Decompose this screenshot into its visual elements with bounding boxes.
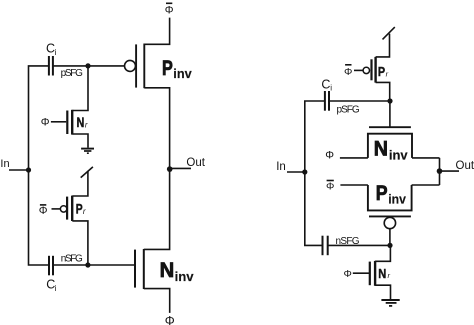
junction In node (left) [26, 167, 31, 172]
svg-text:nSFG: nSFG [61, 253, 83, 264]
svg-text:Φ: Φ [41, 117, 50, 129]
wire In lead (left) [9, 169, 29, 171]
wire Nr gate lead [51, 121, 66, 123]
tunneling arrow (right) [383, 27, 395, 39]
wire Pr gate lead (right) [354, 69, 363, 71]
transistor Nr NMOS (left) [67, 110, 72, 135]
svg-text:C: C [321, 78, 330, 92]
wire Pr drain to tunneling junction (right) [376, 34, 390, 57]
svg-text:In: In [0, 158, 9, 170]
svg-text:i: i [55, 284, 57, 293]
wire nSFG rail (left) [53, 264, 134, 266]
junction pSFG node (left) [85, 63, 90, 68]
wire Nr gate lead (right) [353, 272, 369, 274]
junction Out node (left) [167, 166, 173, 172]
junction Out node (right) [437, 168, 443, 174]
wire Nr source to ground (right) [375, 285, 390, 299]
wire Ninv source lead to phi (right) [340, 157, 368, 159]
wire Pr source to nSFG rail [72, 221, 88, 265]
wire pSFG node to Pr source (right) [376, 82, 390, 101]
wire Out stub (left) [170, 167, 191, 169]
label Ninv [160, 258, 194, 284]
wire Pr gate lead [52, 208, 61, 210]
label Nr [77, 115, 88, 130]
label phi-bar (Pr gate, left) [39, 205, 48, 217]
wire Out stub (right) [440, 170, 460, 172]
capacitor C1 Ci top plates (left) [49, 56, 53, 76]
svg-text:inv: inv [389, 148, 408, 162]
transistor Pinv PMOS (right) [368, 185, 412, 229]
svg-text:P: P [162, 56, 173, 80]
junction nSFG node (left) [85, 262, 90, 267]
label phi-bar (Pinv lead, right) [326, 180, 334, 192]
label phi-bar (Pr gate, right) [344, 65, 352, 78]
svg-text:r: r [386, 69, 389, 78]
transistor Ninv NMOS (left) [135, 249, 144, 289]
svg-text:Φ: Φ [165, 4, 174, 16]
svg-text:N: N [378, 266, 386, 281]
junction pSFG node (right) [387, 98, 392, 103]
svg-text:Out: Out [186, 157, 205, 169]
svg-text:Out: Out [456, 160, 474, 172]
label Ci (top right) [321, 78, 332, 93]
wire Ninv source to phi supply [144, 289, 170, 313]
transistor Pr PMOS (right) [363, 57, 376, 83]
svg-text:N: N [160, 258, 175, 282]
svg-text:Φ: Φ [344, 268, 352, 280]
wire pSFG node to Ninv gate (right) [389, 101, 391, 127]
wire tunneling junction to Pr drain [72, 171, 88, 196]
wire Ninv drain to Out (right) [412, 157, 440, 159]
svg-text:C: C [46, 42, 55, 56]
label Ci (bottom left) [46, 277, 56, 292]
label phi-bar (top supply, left) [165, 3, 174, 16]
wire Pinv drain to phi-bar supply [144, 18, 169, 45]
svg-text:Φ: Φ [165, 314, 175, 325]
wire pSFG rail (left) [53, 65, 125, 67]
wire Pinv source lead to phi-bar (right) [340, 184, 368, 186]
svg-text:P: P [376, 181, 388, 205]
junction In node (right) [302, 169, 307, 174]
svg-text:Φ: Φ [326, 180, 334, 192]
wire input rail feeding both coupling capacitors (left) [29, 66, 50, 265]
wire pSFG node to Nr drain [72, 66, 88, 111]
junction nSFG node (right) [387, 243, 392, 248]
wire Out vertical (right) [439, 158, 441, 185]
transistor Ninv NMOS (right) [368, 127, 412, 158]
wire nSFG node to Nr drain (right) [375, 245, 390, 261]
svg-text:i: i [55, 48, 57, 57]
svg-text:N: N [77, 115, 85, 130]
wire In lead (right) [287, 171, 305, 173]
svg-text:i: i [330, 83, 332, 92]
transistor Pr PMOS (left) [60, 196, 72, 221]
svg-text:r: r [388, 271, 391, 280]
label Pinv [162, 56, 192, 81]
capacitor C2 Ci bottom plates (left) [49, 256, 53, 275]
svg-text:r: r [85, 120, 88, 129]
wire Out node to Ninv drain [144, 169, 170, 249]
svg-text:Φ: Φ [344, 66, 352, 78]
svg-text:inv: inv [175, 270, 194, 284]
transistor Pinv PMOS (left) [125, 44, 145, 89]
label Pr [76, 202, 86, 217]
label Pinv (right) [376, 181, 406, 207]
svg-text:In: In [276, 161, 286, 173]
label Pr (right) [378, 64, 389, 79]
svg-text:r: r [83, 207, 86, 216]
svg-text:pSFG: pSFG [337, 104, 360, 115]
label Ninv (right) [374, 136, 408, 162]
svg-text:inv: inv [388, 193, 406, 207]
wire Pinv drain to Out (right) [412, 184, 440, 186]
svg-text:inv: inv [173, 67, 191, 81]
svg-text:Φ: Φ [39, 205, 48, 217]
svg-text:pSFG: pSFG [61, 68, 84, 79]
wire Pinv source to Out node [144, 88, 169, 169]
wire Nr source to ground [72, 134, 88, 148]
label Nr (right) [378, 266, 390, 281]
ground (left) [81, 149, 94, 154]
wire Pinv gate bubble to nSFG node (right) [389, 229, 391, 246]
wire pSFG rail (right) [329, 100, 390, 102]
svg-text:Φ: Φ [325, 149, 334, 161]
transistor Nr NMOS (right) [370, 261, 375, 286]
label Ci (top left) [46, 42, 57, 57]
capacitor C3 Ci top plates (right) [325, 91, 329, 111]
wire nSFG rail (right) [328, 244, 390, 246]
ground (right) [381, 300, 399, 306]
capacitor C4 Ci bottom plates (right) [323, 236, 328, 256]
svg-text:nSFG: nSFG [336, 236, 360, 247]
svg-text:P: P [378, 64, 385, 79]
svg-text:N: N [374, 136, 388, 160]
wire input rail feeding both coupling capacitors (right) [305, 101, 325, 245]
svg-text:P: P [76, 202, 83, 217]
tunneling arrow (left) [81, 167, 93, 178]
